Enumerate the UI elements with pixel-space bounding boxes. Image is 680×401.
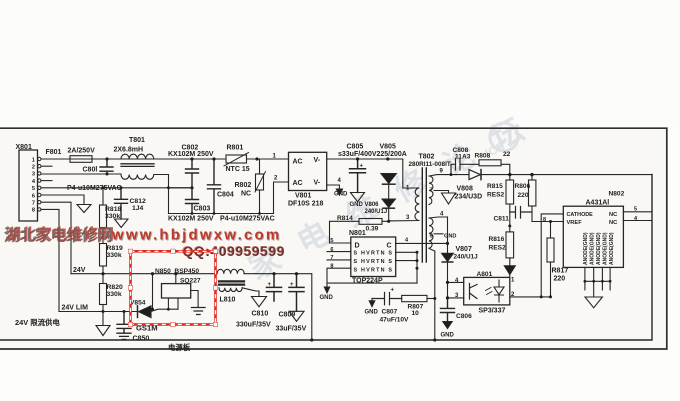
svg-text:24V LIM: 24V LIM [62, 305, 89, 312]
wire N850 bottom pins [168, 298, 178, 309]
ground (24V LIM) [96, 312, 110, 336]
svg-text:C80l: C80l [83, 167, 98, 174]
choke T801 winding top [121, 154, 154, 159]
svg-text:N801: N801 [349, 230, 366, 237]
ground (V801 pin4) [336, 189, 342, 195]
svg-text:ANODE(GND): ANODE(GND) [590, 232, 596, 265]
N802 internal labels [567, 212, 618, 226]
svg-text:V-: V- [314, 157, 321, 164]
wire A801 pin4 [448, 281, 464, 283]
svg-text:NTC 15: NTC 15 [226, 166, 250, 173]
svg-text:R816: R816 [489, 236, 505, 243]
wire N801 pin8 to ground bus [327, 268, 417, 283]
resistor R807 [402, 295, 427, 301]
snubber C808 [451, 159, 479, 175]
svg-text:湖北家电维修网: 湖北家电维修网 [6, 225, 115, 244]
snubber resistor R808 [479, 160, 501, 166]
X801 pin numbers [32, 157, 36, 213]
svg-text:KX102M 250V: KX102M 250V [168, 151, 214, 158]
svg-text:C812: C812 [130, 198, 146, 205]
wire crossing link C802/C803 mid [169, 187, 193, 189]
transformer T802 secondary winding 9-7 [429, 176, 433, 204]
svg-text:1J4: 1J4 [132, 205, 144, 212]
resistor R816 [506, 232, 514, 258]
wire N801 S pins tied [396, 252, 417, 283]
svg-text:X801: X801 [16, 144, 32, 151]
svg-text:P4-u10M275VAC: P4-u10M275VAC [67, 185, 122, 192]
ground (N802) [585, 297, 602, 308]
svg-text:L810: L810 [220, 297, 236, 304]
wire N850 drain from 24V rail [175, 274, 177, 284]
svg-text:C850: C850 [133, 336, 150, 343]
svg-text:C803: C803 [194, 206, 211, 213]
wire pin9 output [429, 175, 446, 176]
capacitor C850 [117, 312, 131, 334]
wire A801 pin3 [448, 297, 464, 299]
svg-text:AC: AC [293, 180, 303, 187]
svg-text:C811: C811 [494, 216, 510, 223]
ground (C807 left) [369, 301, 375, 307]
wire pin1 to fuse [41, 158, 70, 160]
svg-text:DF10S 218: DF10S 218 [288, 201, 324, 208]
choke T801 winding bottom [121, 175, 154, 180]
svg-text:+: + [360, 164, 364, 170]
svg-text:NC: NC [609, 220, 617, 226]
svg-text:V-: V- [314, 180, 321, 187]
wire pin2 stub [41, 165, 52, 167]
svg-text:SQ227: SQ227 [180, 278, 201, 285]
wire N802 right pin 4 [623, 220, 652, 222]
svg-text:33uF/35V: 33uF/35V [276, 326, 307, 333]
svg-text:s33uF/400V: s33uF/400V [338, 151, 377, 158]
diode V808 [446, 174, 469, 176]
ground (R816 / opto) [504, 266, 515, 275]
capacitor C802 [186, 159, 199, 188]
ground (C806) [443, 322, 452, 329]
scan border frame [0, 128, 667, 349]
svg-text:V854: V854 [130, 300, 146, 307]
red dashed selection box [128, 249, 217, 327]
wire 24V output line [481, 174, 652, 176]
svg-text:330k: 330k [105, 213, 120, 220]
capacitor C805 [350, 159, 366, 193]
capacitor C806 [441, 298, 455, 322]
svg-text:0.39: 0.39 [366, 226, 379, 233]
capacitor C811 [510, 207, 532, 219]
diode V854 [137, 306, 139, 318]
svg-text:10: 10 [412, 310, 420, 317]
capacitor C804 [208, 159, 221, 214]
svg-text:2A/250V: 2A/250V [68, 148, 96, 155]
svg-text:ANODE(GND): ANODE(GND) [583, 232, 589, 265]
svg-text:47uF/10V: 47uF/10V [380, 317, 410, 324]
svg-text:S HVRTN S: S HVRTN S [354, 268, 393, 274]
svg-text:1: 1 [32, 157, 35, 163]
svg-text:SP3/337: SP3/337 [479, 308, 506, 315]
wire pin7 to ground [434, 191, 449, 194]
svg-text:24V: 24V [73, 267, 86, 274]
wire pin4 lead [429, 217, 448, 218]
svg-text:GND: GND [350, 202, 364, 208]
capacitor C807 [372, 293, 402, 305]
capacitor C812 [115, 188, 128, 219]
svg-text:VREF: VREF [567, 220, 583, 226]
wire pin6 to ground [41, 195, 84, 205]
svg-text:+: + [391, 288, 395, 294]
choke T801 core [121, 164, 154, 167]
red watermark row 1 [4, 225, 285, 260]
svg-text:R808: R808 [475, 152, 491, 159]
wire N801 pin6 stub [327, 251, 351, 253]
svg-text:24V 限流供电: 24V 限流供电 [15, 318, 60, 327]
svg-text:TOP224P: TOP224P [352, 278, 383, 285]
bridge rectifier V801 [289, 152, 327, 190]
svg-text:电源板: 电源板 [168, 343, 191, 352]
return wire / inner bottom line [0, 175, 652, 341]
svg-text:V807: V807 [456, 246, 472, 253]
ground (L810 return) [252, 297, 267, 307]
svg-text:330k: 330k [107, 291, 122, 298]
svg-text:V806: V806 [365, 202, 380, 208]
wire bridge AC2 [274, 182, 289, 214]
wire 24V rail [71, 273, 217, 275]
TL431 N802 body [563, 206, 623, 267]
svg-text:330uF/35V: 330uF/35V [236, 322, 271, 329]
wire top AC rail [92, 158, 226, 160]
wire N802 right pin 5 [623, 211, 652, 213]
svg-text:R815: R815 [487, 183, 503, 190]
svg-text:D: D [355, 243, 360, 250]
svg-text:R814: R814 [337, 215, 353, 222]
capacitor C801 [100, 159, 113, 174]
svg-text:11A3: 11A3 [455, 153, 471, 160]
resistor R817 [550, 222, 552, 239]
svg-text:225/200A: 225/200A [377, 151, 407, 158]
svg-text:GND: GND [444, 234, 456, 240]
svg-text:C: C [387, 243, 392, 250]
paper tone of scanned band [0, 128, 667, 349]
inductor L810 winding bottom [219, 288, 242, 292]
diode V807 [447, 217, 449, 253]
svg-text:ANODE(GND): ANODE(GND) [596, 232, 602, 265]
wire pin8 down to 24V LIM rail [41, 209, 59, 311]
svg-text:3: 3 [32, 172, 35, 178]
svg-text:C807: C807 [382, 309, 398, 316]
svg-text:C809: C809 [279, 312, 296, 319]
svg-text:S HVRTN S: S HVRTN S [354, 259, 393, 265]
wire V801 V- top output rail [327, 159, 403, 188]
svg-text:www.hbjdwxw.com: www.hbjdwxw.com [111, 227, 281, 244]
svg-text:V801: V801 [295, 193, 311, 200]
ground (pin7) [442, 193, 456, 204]
svg-text:5: 5 [430, 234, 433, 240]
svg-text:2: 2 [32, 165, 35, 171]
wire pin4 stub [41, 180, 52, 182]
svg-text:N802: N802 [609, 191, 625, 198]
resistor R814 [359, 219, 382, 225]
svg-text:GND: GND [320, 295, 334, 301]
svg-text:S HVRTN S: S HVRTN S [354, 251, 393, 257]
svg-text:7: 7 [32, 201, 35, 207]
TOP224P N801 body [351, 237, 396, 277]
svg-text:6: 6 [330, 247, 333, 253]
svg-text:AC: AC [293, 159, 303, 166]
connector X801 [19, 150, 38, 221]
resistor R819 [100, 244, 107, 267]
svg-text:T801: T801 [129, 137, 145, 144]
optocoupler A801 body [464, 277, 510, 305]
transformer T802 primary winding [389, 188, 420, 221]
svg-text:5: 5 [32, 186, 35, 192]
N802 anode labels (vertical) [583, 232, 615, 265]
svg-text:R802: R802 [235, 182, 252, 189]
thermistor R801 [226, 155, 247, 163]
svg-text:RES2: RES2 [487, 192, 505, 199]
svg-text:7: 7 [430, 188, 433, 194]
svg-text:NC: NC [241, 191, 251, 198]
ground (N850) [192, 308, 206, 315]
svg-text:C804: C804 [217, 192, 234, 199]
svg-text:+: + [290, 282, 294, 288]
fuse F801 [70, 156, 92, 163]
transformer T802 core [422, 168, 426, 262]
svg-text:R806: R806 [515, 183, 531, 190]
svg-text:NC: NC [609, 212, 617, 218]
wire VREF net [532, 221, 563, 223]
wire pin5 stub [434, 233, 443, 235]
svg-text:KX102M 250V: KX102M 250V [168, 216, 214, 223]
A801 phototransistor [470, 284, 478, 300]
wire choke out down to bottom rail [154, 175, 169, 214]
svg-text:8: 8 [543, 217, 546, 223]
svg-text:240/U1J: 240/U1J [365, 209, 388, 215]
svg-text:R817: R817 [552, 268, 569, 275]
ground (N801 source) [324, 287, 329, 293]
svg-text:330k: 330k [107, 252, 122, 259]
svg-text:280RI11-008lT: 280RI11-008lT [409, 161, 451, 168]
svg-text:240/U1J: 240/U1J [454, 254, 479, 261]
svg-text:220: 220 [518, 192, 529, 199]
svg-text:P4-u10M275VAC: P4-u10M275VAC [220, 216, 275, 223]
ground (C812) [115, 219, 129, 228]
svg-text:2X6.8mH: 2X6.8mH [114, 147, 144, 154]
svg-text:220: 220 [554, 276, 566, 283]
diode V806 [382, 199, 395, 207]
ground (C850) [117, 333, 131, 339]
svg-text:V808: V808 [457, 186, 473, 193]
inductor L810 core [219, 281, 244, 284]
svg-text:8: 8 [32, 208, 35, 214]
svg-text:7: 7 [330, 255, 333, 261]
wire V801 pin4 to ground [327, 185, 340, 189]
wire N801 control pin to opto [396, 242, 448, 244]
svg-text:+: + [268, 282, 272, 288]
N802 anode pins [585, 267, 610, 297]
svg-text:5: 5 [330, 238, 333, 244]
selection handles [128, 249, 217, 327]
wire pin7 down to 24V rail [41, 202, 71, 274]
wire 24V output rail after L810 [244, 274, 312, 340]
A801 LED [494, 280, 504, 302]
N801 pin numbers [330, 238, 333, 269]
wire N850 right pin to ground [191, 291, 198, 308]
mosfet N850 body [162, 284, 191, 298]
resistor R820 [100, 284, 107, 305]
resistor R818 [100, 205, 107, 228]
svg-text:F801: F801 [46, 149, 62, 156]
svg-text:V805: V805 [380, 144, 396, 151]
svg-text:N850_BSP450: N850_BSP450 [155, 268, 199, 275]
svg-text:C810: C810 [252, 311, 269, 318]
svg-text:6: 6 [32, 193, 35, 199]
ground (C809) [289, 311, 304, 321]
capacitor polarity marks [268, 164, 395, 294]
wire pin3 line [41, 173, 121, 175]
svg-text:A801: A801 [477, 271, 493, 278]
svg-text:8: 8 [330, 263, 333, 269]
svg-text:CATHODE: CATHODE [567, 212, 594, 218]
svg-text:234/U3D: 234/U3D [455, 194, 483, 201]
wire N801 pin7 stub [327, 259, 351, 261]
svg-text:GND: GND [365, 310, 379, 316]
svg-text:GND: GND [441, 333, 455, 339]
wire pin5 line [41, 187, 192, 189]
X801 pin circles [38, 157, 41, 211]
capacitor C809 [289, 274, 304, 312]
transformer T802 bias winding 4-5 [429, 218, 433, 248]
capacitor C803 [186, 188, 199, 214]
svg-text:A431Al: A431Al [586, 200, 610, 207]
diode V805 [381, 174, 396, 184]
svg-text:C806: C806 [456, 313, 472, 320]
ground (pin6) [77, 205, 91, 213]
wire A801 pin2 to cathode [510, 214, 564, 297]
blue forum watermark (diagonal) [243, 100, 551, 286]
varistor R802 [259, 159, 261, 174]
ground (C805) [351, 193, 365, 202]
svg-text:GND: GND [334, 192, 348, 198]
wire 24V LIM rail [59, 311, 137, 313]
svg-text:22: 22 [503, 151, 511, 158]
wire bottom AC rail [169, 213, 274, 215]
wire bias return vertical [429, 249, 435, 341]
inductor L810 winding top [217, 269, 244, 273]
wire L810 bottom winding to ground [242, 288, 259, 297]
resistor R806 [531, 175, 533, 180]
svg-text:R801: R801 [227, 145, 244, 152]
capacitor C810 [267, 274, 282, 301]
svg-text:C805: C805 [347, 144, 364, 151]
resistor R815 [509, 175, 511, 180]
svg-text:5: 5 [634, 206, 637, 212]
wire N850 gate pull [152, 274, 154, 310]
svg-text:T802: T802 [419, 154, 435, 161]
svg-text:ANODE(GND): ANODE(GND) [603, 232, 609, 265]
svg-text:RES2: RES2 [489, 245, 507, 252]
svg-text:ANODE(GND): ANODE(GND) [609, 232, 615, 265]
